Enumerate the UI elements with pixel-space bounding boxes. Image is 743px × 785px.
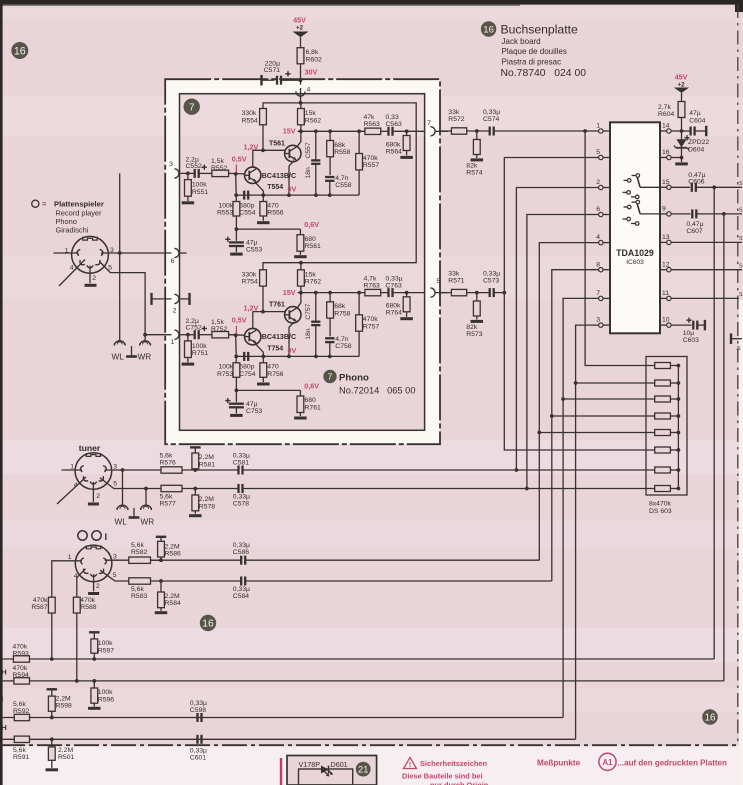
ground below R564	[400, 156, 413, 159]
svg-text:15k: 15k	[305, 110, 317, 117]
wire tuner R (pin5) line	[100, 478, 197, 491]
ground below R596	[88, 707, 101, 710]
capacitor C763 0.33u	[381, 276, 425, 298]
svg-text:2: 2	[173, 308, 177, 315]
svg-text:...auf den gedruckten Platten: ...auf den gedruckten Platten	[618, 759, 727, 768]
page top edge bar	[0, 0, 743, 12]
capacitor C563 0.33	[381, 114, 425, 136]
wire aux L (pin3) line	[105, 558, 163, 562]
capacitor C571 220u	[262, 61, 301, 86]
resistor R562 15k	[298, 103, 322, 131]
resistor R596 100k	[91, 681, 114, 707]
svg-text:T554: T554	[267, 184, 283, 191]
svg-text:10µ: 10µ	[683, 330, 695, 337]
svg-text:15V: 15V	[283, 127, 296, 136]
wire pin16 to ground	[671, 156, 688, 164]
svg-text:Phono: Phono	[339, 372, 369, 383]
node 0.6V line (lower)	[235, 389, 301, 393]
label T754	[267, 346, 283, 353]
LED symbol D601	[321, 766, 333, 777]
IC pin 1 (left)	[596, 123, 610, 134]
svg-text:R764: R764	[386, 310, 402, 317]
svg-text:ZPD22: ZPD22	[688, 139, 709, 146]
svg-text:Buchsenplatte: Buchsenplatte	[501, 23, 578, 37]
IC pin 10 (right)	[660, 317, 671, 328]
labels WL WR (record)	[112, 353, 152, 362]
capacitor C586 0.33u	[151, 542, 251, 565]
svg-text:5: 5	[596, 149, 600, 156]
svg-text:680p: 680p	[239, 202, 254, 209]
svg-text:2,2M: 2,2M	[199, 496, 214, 503]
svg-text:4,7n: 4,7n	[335, 336, 348, 343]
svg-text:C573: C573	[483, 278, 499, 285]
IC pin 15 (right)	[660, 179, 671, 190]
ground below R551	[182, 201, 195, 204]
resistor R556 470	[260, 195, 284, 221]
wire aux R (pin5) line	[100, 570, 129, 581]
svg-text:C586: C586	[233, 549, 249, 556]
chassis symbol between WL WR (record)	[126, 346, 137, 357]
svg-text:R578: R578	[199, 503, 215, 510]
wire tuner R long line to DS603 row 8	[242, 487, 654, 491]
record pin 2 ground	[85, 266, 97, 286]
hop pin 4 into phono module	[296, 87, 311, 103]
resistor R577 5.6k	[160, 485, 239, 507]
IC pin 13 (right)	[660, 234, 671, 245]
label 0.5V (upper) with test tick	[232, 154, 247, 172]
resistor R578 2.2M	[192, 489, 215, 514]
resistor R582 5.6k	[129, 542, 151, 564]
IC pin 7 (left)	[596, 290, 610, 301]
capacitor C757 18n	[305, 293, 321, 357]
phono module border (white band)	[165, 79, 440, 444]
svg-text:6: 6	[596, 206, 600, 213]
svg-text:7: 7	[328, 372, 333, 382]
label H (line4)	[1, 723, 6, 732]
capacitor C573 0.33u	[483, 270, 504, 297]
resistor R591 5.6k	[13, 736, 30, 761]
capacitor C603 10u on pin10	[671, 318, 705, 345]
svg-text:R761: R761	[305, 404, 321, 411]
ground below C753	[230, 414, 243, 417]
svg-text:0V: 0V	[288, 185, 297, 194]
svg-text:BC413B/C: BC413B/C	[262, 333, 296, 341]
resistor R576 5.6k	[160, 452, 239, 473]
zener diode D604 ZPD22	[674, 131, 709, 158]
wire pin9 output with C607	[671, 209, 742, 235]
svg-text:C578: C578	[233, 500, 249, 507]
svg-text:D601: D601	[331, 760, 348, 769]
resistor R581 2.2M	[190, 447, 215, 470]
wire line H3 (R591 net)	[3, 737, 576, 741]
svg-text:C603: C603	[683, 337, 699, 344]
resistor DS603 row 8 470k	[655, 486, 679, 492]
wire bus pin5 net (lower phono out riser)	[502, 158, 654, 451]
wire pin13 output	[671, 236, 743, 242]
wire R552 to T554 base	[229, 172, 245, 176]
op-amp/switch IC U603 TDA1029 body	[610, 122, 660, 333]
svg-text:16: 16	[662, 149, 670, 156]
svg-text:14: 14	[662, 123, 670, 130]
capacitor C598 0.33u	[190, 700, 207, 722]
DS603 label 8x470k	[649, 501, 672, 515]
label 0.6V (lower)	[304, 381, 319, 390]
svg-text:R563: R563	[364, 121, 380, 128]
capacitor C558 4.7n	[325, 175, 352, 195]
svg-text:5,6k: 5,6k	[131, 542, 144, 549]
IC pin 2 (left)	[596, 179, 610, 190]
capacitor C574 0.33u	[483, 109, 599, 136]
svg-text:16: 16	[705, 713, 716, 724]
svg-text:IC603: IC603	[626, 259, 644, 266]
wire line H1 (R593 net)	[3, 657, 715, 661]
resistor R594 470k	[13, 665, 30, 684]
transistor T754	[245, 328, 261, 344]
svg-text:680k: 680k	[386, 141, 401, 148]
wire phono out upper to IC pin 1	[441, 129, 489, 133]
hop pin 3 phono input (upper)	[169, 161, 194, 178]
node 15V rail (upper)	[298, 129, 365, 133]
wire record pin 3 to phono hop 6	[101, 251, 172, 255]
svg-text:C558: C558	[335, 182, 351, 189]
label pin 1 at hop	[171, 339, 175, 346]
svg-text:I: I	[1, 695, 3, 704]
wire bus pin7 riser (line I)	[561, 298, 598, 717]
svg-text:0,5V: 0,5V	[232, 316, 247, 325]
svg-text:WR: WR	[141, 518, 155, 527]
record pin labels 1 3 4 5 2	[65, 247, 114, 282]
svg-text:1,2V: 1,2V	[244, 304, 259, 313]
svg-text:R596: R596	[98, 697, 114, 704]
red note Sicherheitszeichen	[402, 759, 489, 785]
node 0V rail (lower)	[234, 355, 359, 359]
svg-text:R753: R753	[217, 371, 233, 378]
svg-text:100k: 100k	[192, 182, 207, 189]
svg-text:7: 7	[427, 120, 431, 127]
resistor R564 680k	[386, 131, 410, 155]
svg-text:T561: T561	[269, 140, 285, 147]
IC switch symbols (pins 15 and 9)	[623, 174, 661, 226]
indicator module box V178P D601	[287, 756, 377, 785]
IC pin 16 (right)	[660, 149, 671, 160]
hop pin 5 phono output (lower)	[431, 278, 449, 297]
svg-text:R571: R571	[448, 278, 464, 285]
svg-text:R553: R553	[217, 210, 233, 217]
resistor R584 2.2M	[158, 579, 181, 611]
label 45V +2 (top)	[293, 16, 306, 32]
resistor DS603 row 5 470k	[539, 430, 678, 436]
svg-text:BC413B/C: BC413B/C	[262, 172, 296, 180]
power +45V arrow (right)	[674, 73, 689, 102]
svg-text:1: 1	[171, 339, 175, 346]
svg-text:R587: R587	[31, 604, 47, 611]
svg-text:C604: C604	[689, 118, 705, 125]
svg-text:R598: R598	[56, 703, 72, 710]
svg-text:33k: 33k	[448, 109, 460, 116]
svg-text:0,6V: 0,6V	[304, 220, 319, 229]
svg-text:680: 680	[305, 236, 317, 243]
svg-text:470k: 470k	[33, 597, 48, 604]
resistor R593 470k	[13, 643, 30, 662]
svg-text:V178P: V178P	[299, 760, 321, 769]
svg-text:68k: 68k	[334, 303, 346, 310]
svg-text:R604: R604	[658, 111, 674, 118]
wire tuner WL shield drop	[122, 470, 124, 505]
svg-text:2,2M: 2,2M	[56, 695, 71, 702]
label T561	[269, 140, 285, 147]
warning triangle (red)	[404, 758, 417, 769]
resistor R762 15k	[298, 264, 322, 292]
record pin 1 stub	[54, 252, 79, 254]
svg-text:0,33µ: 0,33µ	[190, 747, 207, 754]
svg-text:5,6k: 5,6k	[131, 586, 144, 593]
IC pin 6 (left)	[596, 206, 610, 217]
label T554	[267, 184, 283, 191]
svg-text:30V: 30V	[305, 68, 318, 77]
label BC413B/C (lower)	[262, 333, 296, 341]
svg-text:C574: C574	[483, 116, 499, 123]
svg-text:0,47µ: 0,47µ	[686, 221, 703, 228]
svg-text:100k: 100k	[98, 689, 113, 696]
aux pin labels	[68, 553, 117, 590]
resistor DS603 row 7 470k	[655, 467, 679, 473]
resistor R558 68k	[327, 131, 351, 175]
node 0V rail (upper) with C554 feedback	[234, 193, 359, 197]
DIN connector tuner	[75, 453, 112, 490]
ground below R756	[257, 383, 270, 386]
svg-text:1,5k: 1,5k	[211, 158, 224, 165]
svg-text:680p: 680p	[239, 364, 254, 371]
resistor R572 33k	[448, 109, 466, 134]
hop pin 7 phono output (upper)	[427, 120, 448, 136]
chassis symbol between WL WR (tuner)	[129, 508, 140, 518]
svg-text:2: 2	[596, 179, 600, 186]
svg-text:0,33µ: 0,33µ	[233, 452, 250, 459]
badge 16 (title)	[481, 21, 496, 36]
svg-text:R558: R558	[334, 149, 350, 156]
resistor R602 6.8k	[297, 48, 322, 64]
resistor R552 1.5k	[211, 158, 229, 177]
wire T754 emitter	[255, 343, 265, 358]
svg-text:68k: 68k	[334, 142, 346, 149]
svg-text:C607: C607	[686, 228, 702, 235]
node 15V rail (lower)	[298, 291, 365, 295]
capacitor C552 2.2u	[186, 157, 212, 178]
hop pin 6 phono (record L)	[171, 248, 187, 265]
svg-text:47µ: 47µ	[689, 110, 701, 117]
svg-text:470: 470	[267, 202, 279, 209]
svg-text:S: S	[739, 236, 743, 242]
svg-text:Sicherheitszeichen: Sicherheitszeichen	[420, 759, 487, 768]
svg-text:3: 3	[596, 317, 600, 324]
svg-text:R562: R562	[305, 117, 321, 124]
wire T561 collector	[297, 131, 301, 147]
svg-text:15V: 15V	[283, 288, 296, 297]
svg-text:R592: R592	[13, 708, 29, 715]
supply frame wire (30V rail around upper channel)	[263, 101, 416, 270]
wire T761 collector	[297, 293, 301, 309]
label 1.2V (lower)	[244, 304, 259, 313]
resistor R758 68k	[327, 293, 351, 337]
resistor R588 470k	[73, 597, 96, 681]
svg-text:4: 4	[70, 265, 74, 272]
capacitor C553 47u	[225, 229, 262, 254]
resistor R587 470k	[31, 597, 55, 659]
wire pin14 node	[671, 129, 683, 133]
wire bus pin1 to DS603 row1	[585, 131, 655, 366]
resistor R764 680k	[386, 293, 410, 317]
svg-text:4,7k: 4,7k	[364, 276, 377, 283]
node 1.2V line T554 collector to T561 base	[253, 125, 285, 167]
svg-text:+2: +2	[296, 25, 304, 32]
capacitor C584 0.33u	[151, 577, 251, 600]
svg-text:C563: C563	[386, 121, 402, 128]
svg-text:0,33µ: 0,33µ	[233, 542, 250, 549]
svg-text:16: 16	[483, 24, 494, 35]
svg-text:6: 6	[171, 258, 175, 265]
svg-text:2,2M: 2,2M	[58, 747, 73, 754]
hop pin 1 phono input (lower)	[174, 330, 194, 339]
IC pin 12 (right)	[660, 261, 671, 272]
wire T561 emitter to 0V rail	[287, 161, 294, 197]
svg-text:C553: C553	[246, 247, 262, 254]
svg-text:8x470k: 8x470k	[649, 501, 672, 508]
svg-text:100k: 100k	[218, 364, 233, 371]
resistor R754 330k	[242, 270, 267, 286]
svg-text:!: !	[409, 762, 411, 769]
badge 16 (top left)	[11, 42, 28, 59]
svg-text:R756: R756	[267, 371, 283, 378]
wire R602 to node 30V	[299, 64, 303, 85]
svg-text:2,2M: 2,2M	[165, 543, 180, 550]
wire record L shield drop (to WL claw)	[119, 173, 121, 340]
svg-text:7: 7	[189, 102, 195, 113]
wire input to R551 junction	[186, 172, 190, 176]
svg-text:tuner: tuner	[79, 443, 101, 453]
svg-text:2: 2	[96, 493, 100, 500]
ground below R501	[46, 768, 59, 771]
svg-text:R584: R584	[165, 600, 181, 607]
svg-text:D604: D604	[688, 147, 704, 154]
svg-text:5,6k: 5,6k	[160, 493, 173, 500]
ground below R578	[189, 514, 202, 517]
labels WL WR (tuner)	[115, 518, 155, 527]
svg-text:0,5V: 0,5V	[232, 154, 247, 163]
bottom white strip	[0, 746, 743, 785]
legend Plattenspieler	[32, 200, 104, 235]
svg-text:47µ: 47µ	[246, 240, 258, 247]
wire record pin 5 to WR claw and phono pin 1	[100, 262, 172, 341]
svg-text:9: 9	[662, 206, 666, 213]
svg-text:R591: R591	[13, 754, 29, 761]
svg-text:470k: 470k	[80, 597, 95, 604]
svg-text:5,6k: 5,6k	[13, 701, 26, 708]
svg-text:470k: 470k	[363, 316, 378, 323]
svg-text:0,33µ: 0,33µ	[190, 700, 207, 707]
ground below R764	[400, 317, 413, 320]
label 15V (upper)	[283, 127, 296, 136]
svg-text:TDA1029: TDA1029	[616, 248, 654, 258]
svg-text:S: S	[739, 181, 743, 187]
svg-text:S: S	[739, 263, 743, 269]
svg-text:Giradischi: Giradischi	[56, 226, 89, 235]
svg-text:21: 21	[358, 764, 368, 774]
badge 16 (mid left)	[200, 615, 216, 631]
svg-text:Meßpunkte: Meßpunkte	[537, 759, 581, 768]
svg-text:7: 7	[596, 290, 600, 297]
aux pin 2 ground	[88, 574, 99, 593]
node 1.2V line (lower)	[253, 286, 285, 328]
svg-text:Plattenspieler: Plattenspieler	[54, 200, 104, 209]
label T761	[269, 302, 285, 309]
svg-text:C598: C598	[190, 707, 206, 714]
svg-text:S: S	[739, 292, 743, 298]
svg-text:1: 1	[70, 463, 74, 470]
svg-text:330k: 330k	[242, 110, 257, 117]
IC pin 8 (left)	[596, 261, 610, 272]
label S (pin9 line)	[739, 208, 743, 214]
wire line H1 right corner	[713, 658, 715, 660]
svg-text:WR: WR	[138, 353, 152, 362]
svg-text:R576: R576	[160, 459, 176, 466]
svg-text:C557: C557	[305, 142, 312, 158]
svg-text:680k: 680k	[386, 303, 401, 310]
svg-text:No.72014 065 00: No.72014 065 00	[339, 386, 416, 396]
wire bus pin9 drop to line H2	[723, 214, 725, 681]
wire aux L long line to pin 4 riser	[245, 559, 539, 561]
ground below R561	[294, 255, 307, 258]
svg-text:C753: C753	[246, 408, 262, 415]
svg-text:DS 603: DS 603	[649, 508, 672, 515]
phono module pin 2 stubs (unused)	[152, 293, 190, 315]
wire tuner WR shield drop	[145, 489, 147, 506]
wire tuner L (pin3) line	[105, 468, 198, 472]
resistor DS603 row 3 470k	[563, 396, 678, 402]
svg-text:R551: R551	[192, 189, 208, 196]
lamp V178P D601 labels	[299, 760, 348, 769]
svg-text:4: 4	[596, 234, 600, 241]
svg-text:C584: C584	[233, 593, 249, 600]
svg-text:3: 3	[113, 463, 117, 470]
svg-text:Plaque de douilles: Plaque de douilles	[502, 47, 567, 56]
ground below R573	[471, 320, 484, 323]
svg-text:1,2V: 1,2V	[244, 142, 259, 151]
svg-text:A1: A1	[603, 758, 614, 767]
svg-text:33k: 33k	[448, 270, 460, 277]
resistor R501 2.2M	[48, 739, 74, 768]
wire line H2 right corner	[723, 680, 725, 682]
capacitor C753 47u	[225, 390, 262, 415]
svg-text:0,33µ: 0,33µ	[233, 586, 250, 593]
svg-text:R557: R557	[363, 162, 379, 169]
power +45V arrow (top)	[293, 32, 309, 48]
label BC413B/C (upper)	[262, 172, 296, 180]
svg-text:47µ: 47µ	[246, 401, 258, 408]
svg-text:R552: R552	[211, 165, 227, 172]
claw WL (record)	[114, 341, 125, 346]
svg-text:C758: C758	[335, 343, 351, 350]
svg-text:WL: WL	[112, 353, 125, 362]
resistor R553 100k	[217, 195, 240, 229]
IC pin 14 (right)	[660, 123, 671, 134]
DIN connector aux	[75, 545, 112, 582]
svg-text:R564: R564	[386, 148, 402, 155]
page left edge bar	[0, 0, 3, 785]
wire pin12 output	[671, 263, 743, 269]
resistor R598 2.2M	[47, 689, 73, 717]
svg-text:H: H	[1, 668, 6, 677]
svg-text:12: 12	[662, 261, 670, 268]
